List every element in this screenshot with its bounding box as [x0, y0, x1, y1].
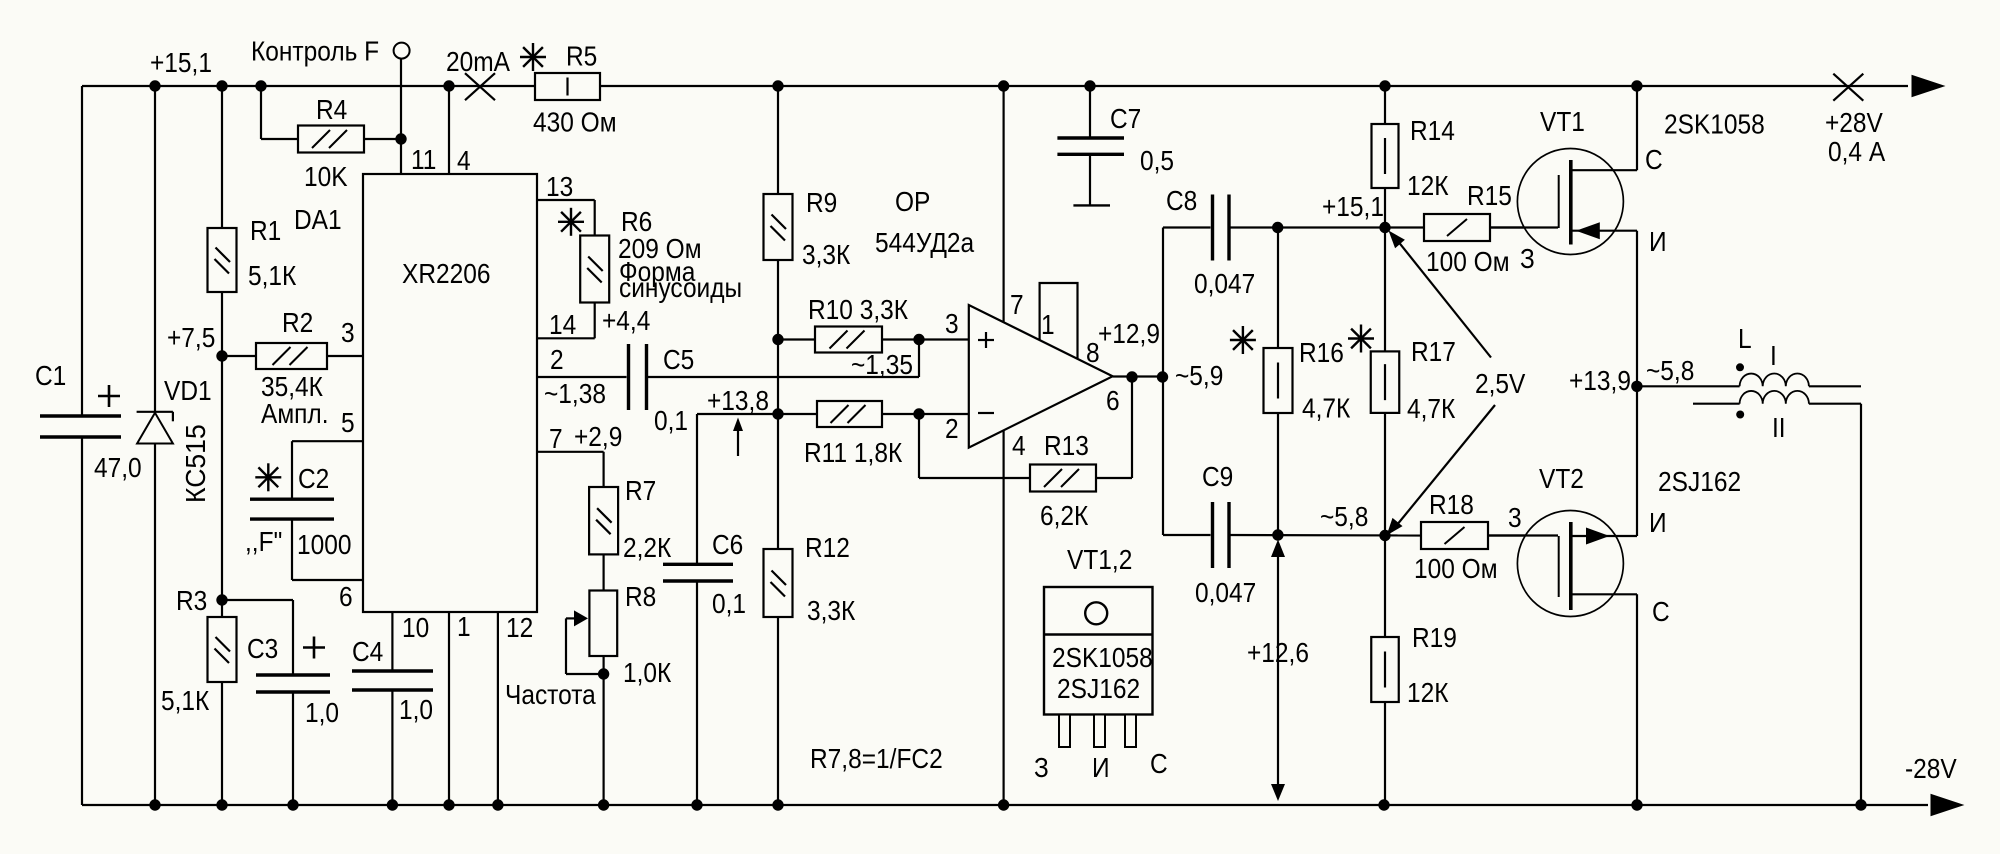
svg-text:7: 7 — [1010, 288, 1024, 320]
svg-text:20mA: 20mA — [446, 45, 510, 77]
svg-text:I: I — [1770, 339, 1777, 371]
svg-text:ОР: ОР — [895, 185, 930, 217]
svg-text:R9: R9 — [806, 186, 837, 218]
svg-text:XR2206: XR2206 — [402, 257, 490, 289]
svg-text:~5,9: ~5,9 — [1175, 359, 1223, 391]
svg-text:4,7К: 4,7К — [1407, 392, 1456, 424]
svg-text:3: 3 — [1508, 501, 1522, 533]
svg-text:~1,38: ~1,38 — [544, 377, 606, 409]
svg-text:С: С — [1645, 143, 1663, 175]
svg-text:+28V: +28V — [1825, 106, 1883, 138]
svg-text:12К: 12К — [1407, 169, 1449, 201]
svg-text:З: З — [1520, 242, 1535, 274]
svg-text:R4: R4 — [316, 93, 347, 125]
svg-text:R13: R13 — [1044, 429, 1089, 461]
svg-text:R11 1,8К: R11 1,8К — [804, 436, 903, 468]
svg-text:R12: R12 — [805, 531, 850, 563]
svg-text:Ампл.: Ампл. — [261, 397, 329, 429]
svg-text:С9: С9 — [1202, 460, 1233, 492]
svg-text:+2,9: +2,9 — [574, 420, 622, 452]
svg-text:-28V: -28V — [1905, 752, 1957, 784]
svg-text:R10 3,3К: R10 3,3К — [808, 293, 909, 325]
svg-text:2SJ162: 2SJ162 — [1658, 465, 1741, 497]
svg-text:,,F": ,,F" — [245, 525, 282, 557]
svg-text:4: 4 — [457, 144, 471, 176]
svg-text:6: 6 — [339, 580, 353, 612]
svg-text:~5,8: ~5,8 — [1646, 354, 1694, 386]
svg-text:R16: R16 — [1299, 336, 1344, 368]
svg-text:0,5: 0,5 — [1140, 144, 1174, 176]
svg-text:R1: R1 — [250, 214, 281, 246]
svg-text:13: 13 — [546, 170, 573, 202]
svg-text:C3: C3 — [247, 632, 278, 664]
svg-text:C7: C7 — [1110, 102, 1141, 134]
svg-text:R8: R8 — [625, 580, 656, 612]
svg-text:С: С — [1150, 747, 1168, 779]
svg-text:И: И — [1649, 506, 1667, 538]
svg-text:10: 10 — [402, 611, 429, 643]
svg-text:C5: C5 — [663, 343, 694, 375]
svg-text:VT1: VT1 — [1540, 105, 1585, 137]
svg-text:0,047: 0,047 — [1194, 267, 1255, 299]
svg-text:14: 14 — [549, 308, 576, 340]
svg-text:Частота: Частота — [505, 678, 596, 710]
svg-text:5,1К: 5,1К — [161, 684, 210, 716]
svg-text:VT1,2: VT1,2 — [1067, 543, 1132, 575]
svg-text:L: L — [1738, 322, 1752, 354]
svg-text:C2: C2 — [298, 462, 329, 494]
svg-text:5: 5 — [341, 406, 355, 438]
svg-text:100 Ом: 100 Ом — [1414, 552, 1498, 584]
svg-text:КС515: КС515 — [179, 424, 211, 503]
svg-text:0,047: 0,047 — [1195, 576, 1256, 608]
svg-text:+13,9: +13,9 — [1569, 364, 1631, 396]
svg-text:С: С — [1652, 595, 1670, 627]
svg-text:12: 12 — [506, 611, 533, 643]
svg-text:И: И — [1649, 225, 1667, 257]
svg-text:R3: R3 — [176, 584, 207, 616]
svg-text:0,4 А: 0,4 А — [1828, 135, 1886, 167]
svg-text:+7,5: +7,5 — [167, 321, 215, 353]
svg-text:4,7К: 4,7К — [1302, 392, 1351, 424]
svg-text:C1: C1 — [35, 359, 66, 391]
svg-text:6,2К: 6,2К — [1040, 499, 1089, 531]
svg-text:+4,4: +4,4 — [602, 304, 650, 336]
svg-text:10K: 10K — [304, 160, 348, 192]
svg-text:С6: С6 — [712, 528, 743, 560]
svg-text:C4: C4 — [352, 635, 383, 667]
svg-text:+15,1: +15,1 — [150, 46, 212, 78]
svg-text:R19: R19 — [1412, 621, 1457, 653]
svg-text:1: 1 — [1041, 308, 1055, 340]
svg-text:2,2К: 2,2К — [623, 531, 672, 563]
svg-text:R7: R7 — [625, 474, 656, 506]
svg-text:И: И — [1092, 751, 1110, 783]
svg-text:0,1: 0,1 — [654, 404, 688, 436]
svg-text:~1,35: ~1,35 — [851, 348, 913, 380]
svg-text:12К: 12К — [1407, 676, 1449, 708]
svg-text:544УД2а: 544УД2а — [875, 226, 974, 258]
svg-text:C8: C8 — [1166, 184, 1197, 216]
svg-text:100 Ом: 100 Ом — [1426, 245, 1510, 277]
svg-text:II: II — [1772, 411, 1786, 443]
svg-text:Контроль F: Контроль F — [251, 35, 379, 67]
svg-text:1,0К: 1,0К — [623, 656, 672, 688]
svg-text:3: 3 — [945, 307, 959, 339]
svg-text:11: 11 — [411, 143, 436, 175]
svg-text:0,1: 0,1 — [712, 587, 746, 619]
svg-text:1,0: 1,0 — [305, 696, 339, 728]
svg-text:VT2: VT2 — [1539, 462, 1584, 494]
svg-text:2SK1058: 2SK1058 — [1664, 108, 1765, 140]
svg-text:DA1: DA1 — [294, 203, 342, 235]
svg-text:2SK1058: 2SK1058 — [1052, 641, 1153, 673]
svg-text:47,0: 47,0 — [94, 451, 142, 483]
svg-text:3: 3 — [341, 316, 355, 348]
svg-text:2: 2 — [550, 343, 564, 375]
svg-text:R2: R2 — [282, 306, 313, 338]
svg-text:~5,8: ~5,8 — [1320, 500, 1368, 532]
svg-text:R14: R14 — [1410, 114, 1455, 146]
svg-text:+15,1: +15,1 — [1322, 190, 1384, 222]
svg-text:синусоиды: синусоиды — [619, 271, 742, 303]
svg-text:+13,8: +13,8 — [707, 384, 769, 416]
svg-text:З: З — [1034, 751, 1049, 783]
svg-text:R15: R15 — [1467, 179, 1512, 211]
svg-text:1,0: 1,0 — [399, 693, 433, 725]
svg-text:R7,8=1/FC2: R7,8=1/FC2 — [810, 742, 943, 774]
svg-text:1: 1 — [457, 610, 471, 642]
svg-text:R17: R17 — [1411, 335, 1456, 367]
svg-text:2,5V: 2,5V — [1475, 367, 1526, 399]
svg-text:R18: R18 — [1429, 488, 1474, 520]
svg-text:R5: R5 — [566, 40, 597, 72]
svg-text:5,1К: 5,1К — [248, 259, 297, 291]
svg-text:430 Ом: 430 Ом — [533, 106, 617, 138]
svg-text:3,3К: 3,3К — [807, 594, 856, 626]
svg-text:+12,6: +12,6 — [1247, 636, 1309, 668]
svg-text:1000: 1000 — [297, 528, 351, 560]
svg-text:2SJ162: 2SJ162 — [1057, 672, 1140, 704]
svg-text:6: 6 — [1106, 384, 1120, 416]
svg-text:VD1: VD1 — [164, 374, 212, 406]
svg-text:2: 2 — [945, 412, 959, 444]
svg-text:7: 7 — [549, 422, 563, 454]
svg-text:3,3К: 3,3К — [802, 238, 851, 270]
svg-text:4: 4 — [1012, 429, 1026, 461]
svg-text:+12,9: +12,9 — [1098, 317, 1160, 349]
